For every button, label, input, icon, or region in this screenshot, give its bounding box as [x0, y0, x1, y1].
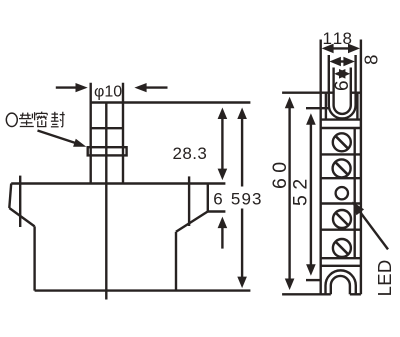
svg-text:LED: LED	[374, 259, 395, 296]
LED indicator	[336, 187, 348, 199]
dim 8 double arrow	[329, 57, 355, 67]
screw terminal 2	[333, 159, 351, 177]
glyph 密	[36, 112, 47, 127]
O-ring collar	[88, 147, 127, 155]
separator terminal1 top	[321, 127, 361, 129]
dim 6 lower arrow	[218, 217, 228, 249]
svg-text:6: 6	[332, 80, 353, 91]
cylinder stem left edge	[89, 83, 91, 184]
separator terminal4 bottom	[321, 257, 361, 259]
dim 6 double arrow	[334, 69, 350, 79]
mount outer arch	[326, 270, 356, 294]
body bottom edge right segment	[350, 293, 361, 295]
body left edge	[9, 184, 11, 209]
leader arrowhead	[73, 139, 86, 147]
body step line right extension	[208, 210, 226, 212]
body top edge right segment	[351, 91, 361, 93]
label O-ring seal (O型密封) drawn as vector glyphs	[6, 112, 64, 127]
separator terminal1/2	[321, 153, 361, 155]
dim 52 top extension	[306, 107, 330, 109]
terminal rail	[354, 128, 356, 258]
separator terminal2 bottom	[321, 177, 361, 179]
svg-text:28.3: 28.3	[173, 144, 208, 163]
slot housing inner wall left	[325, 93, 327, 120]
svg-text:60: 60	[269, 156, 291, 189]
separator below slot	[321, 118, 361, 120]
dim 28.3 line with arrows	[218, 108, 228, 181]
left tick mark	[19, 176, 21, 227]
right tick mark	[188, 176, 190, 226]
screw terminal 3	[333, 210, 351, 228]
separator mount top	[321, 265, 361, 267]
svg-text:52: 52	[289, 173, 311, 206]
LED leader line	[357, 208, 388, 250]
cylinder stem right edge	[122, 83, 124, 184]
dim 52 bottom extension	[306, 279, 321, 281]
centerline	[105, 103, 107, 300]
body left vertical	[33, 226, 35, 290]
separator terminal3 bottom	[321, 228, 361, 230]
screw terminal 4	[333, 239, 351, 257]
body bottom edge left segment + 60 extension	[282, 293, 331, 295]
separator LED bottom	[321, 202, 361, 204]
arrow (phi10 right, pointing left)	[134, 83, 167, 92]
slot outer wall left + U	[329, 55, 356, 119]
body right chamfer	[176, 212, 208, 232]
cylinder feature line 2	[91, 127, 123, 129]
body top edge left segment + 60 extension line	[282, 91, 334, 93]
svg-text:φ10: φ10	[94, 84, 122, 101]
glyph 封	[51, 112, 65, 127]
mount inner arch	[331, 276, 350, 294]
body right edge (with 118 extension up)	[360, 40, 362, 295]
glyph 型	[19, 112, 35, 126]
svg-text:118: 118	[323, 29, 353, 48]
dim 593 line with arrows	[237, 108, 247, 289]
svg-text:593: 593	[231, 189, 263, 208]
slot inner wall left + U	[334, 68, 351, 114]
body left chamfer	[9, 208, 34, 226]
dim 52 line with arrows	[306, 113, 316, 275]
cylinder feature line / top extension line to dims	[90, 101, 250, 103]
arrow (phi10 left, pointing right)	[56, 83, 88, 92]
body left edge (with 118 extension up)	[320, 40, 322, 295]
glyph O	[6, 113, 17, 126]
svg-text:6: 6	[213, 189, 222, 208]
body bottom edge (with right extension)	[35, 289, 251, 291]
slot housing inner wall right	[356, 93, 358, 120]
LED leader arrowhead	[352, 202, 364, 216]
leader line to O-ring	[38, 131, 79, 145]
body top edge (with right extension)	[11, 182, 225, 184]
svg-text:8: 8	[361, 55, 382, 65]
dim 118 double arrow	[322, 44, 360, 54]
dim 60 line with arrows	[285, 97, 295, 290]
body right edge	[207, 184, 209, 212]
body right vertical	[175, 232, 177, 291]
screw terminal 1	[333, 133, 351, 151]
